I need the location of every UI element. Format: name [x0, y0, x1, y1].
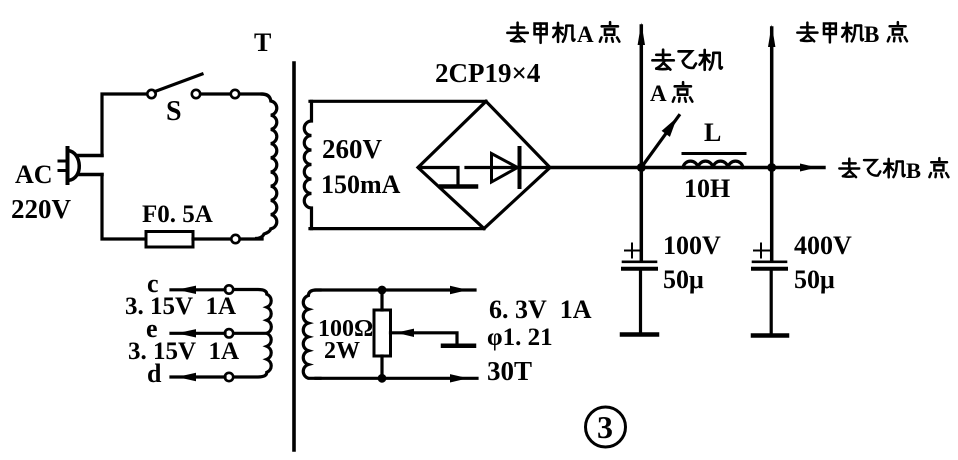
terminal circle d — [225, 373, 233, 381]
svg-text:S: S — [166, 96, 182, 127]
bridge rectifier 2CP19x4 (diamond) — [418, 101, 550, 228]
wire: plug to switch (top-left loop) — [102, 94, 147, 156]
winding 260V secondary — [304, 101, 486, 228]
wire: vertical riser B with top arrow — [768, 25, 775, 262]
svg-text:A: A — [650, 81, 667, 106]
capacitor C1 100V 50u — [622, 244, 657, 335]
svg-text:2W: 2W — [324, 338, 360, 364]
svg-text:50μ: 50μ — [663, 265, 704, 294]
svg-text:B: B — [906, 158, 921, 183]
diagonal arrow to 乙机A — [641, 116, 679, 168]
wire e with arrow — [171, 329, 225, 337]
wire: vertical riser A with top arrow — [638, 23, 645, 262]
svg-text:2CP19×4: 2CP19×4 — [435, 58, 540, 88]
junction dot resistor top — [378, 286, 387, 295]
label 去甲机B点 — [797, 22, 907, 47]
wire d with arrow — [171, 373, 225, 381]
svg-text:d: d — [147, 359, 162, 388]
svg-text:100V: 100V — [663, 231, 721, 260]
terminal circle e — [225, 329, 233, 337]
label 去甲机A点 — [507, 22, 619, 47]
svg-text:L: L — [704, 118, 721, 147]
figure number circle 3 — [586, 407, 626, 447]
svg-text:B: B — [864, 22, 879, 47]
wire c with arrow — [171, 286, 225, 294]
wire: 6.3V top with arrow — [316, 286, 475, 294]
svg-text:150mA: 150mA — [321, 170, 401, 199]
svg-text:30T: 30T — [487, 356, 532, 386]
svg-text:F0. 5A: F0. 5A — [142, 201, 213, 228]
svg-text:400V: 400V — [794, 231, 852, 260]
svg-text:A: A — [577, 22, 594, 47]
svg-text:3. 15V 1A: 3. 15V 1A — [128, 338, 239, 365]
svg-text:50μ: 50μ — [794, 265, 835, 294]
svg-text:3: 3 — [597, 409, 613, 445]
arrow to 乙机B (right) — [800, 164, 817, 172]
capacitor C2 400V 50u — [753, 244, 787, 336]
inductor L — [683, 154, 745, 168]
svg-text:3. 15V 1A: 3. 15V 1A — [125, 293, 236, 320]
transformer primary winding — [255, 94, 277, 239]
junction node A — [637, 163, 646, 172]
svg-text:6. 3V 1A: 6. 3V 1A — [489, 295, 592, 324]
resistor 100ohm 2W — [374, 290, 391, 378]
fuse F0.5A — [146, 232, 262, 248]
svg-text:AC: AC — [15, 160, 53, 189]
wire tap e — [234, 332, 268, 335]
terminal circle c — [225, 285, 233, 293]
winding 6.3V secondary — [303, 290, 320, 378]
wire: bridge output to junction A — [550, 166, 824, 169]
transformer core — [292, 63, 296, 450]
wire: plug down to fuse wire — [102, 175, 146, 240]
svg-text:T: T — [254, 28, 271, 57]
svg-text:220V: 220V — [11, 194, 72, 224]
junction node B — [767, 163, 776, 172]
junction dot resistor bottom — [378, 374, 387, 383]
center tap wire with left arrow and chassis bar — [391, 329, 475, 346]
label 去乙机 — [652, 50, 721, 70]
svg-text:10H: 10H — [684, 174, 730, 203]
label 去乙机B点 — [839, 158, 948, 183]
switch S — [147, 74, 239, 98]
wire: switch to primary coil — [240, 92, 263, 95]
svg-text:φ1. 21: φ1. 21 — [487, 324, 553, 351]
bridge inner minus-plate symbol — [419, 168, 476, 187]
plug P1 (AC mains plug) — [59, 148, 102, 183]
svg-text:260V: 260V — [322, 134, 383, 164]
label A点 — [650, 81, 692, 106]
winding c-e-d (3.15V taps) — [234, 290, 272, 378]
wire: 6.3V bottom with arrow — [316, 374, 477, 382]
bridge inner diode — [466, 148, 548, 187]
